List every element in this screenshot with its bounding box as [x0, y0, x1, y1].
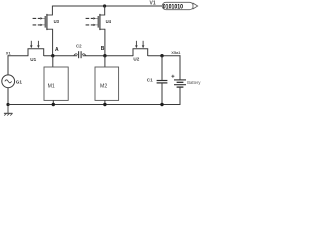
svg-text:C1: C1 — [147, 77, 153, 82]
node: M2 bottom junction — [103, 103, 106, 106]
wire: M2 bottom pin — [104, 100, 106, 104]
svg-text:V1: V1 — [150, 1, 156, 7]
svg-text:B: B — [101, 46, 105, 52]
node: ground corner dot — [6, 103, 9, 106]
wire: M1 top pin — [52, 56, 54, 67]
transistor U4 (photo dual-gate FET, right) — [86, 14, 105, 30]
svg-text:G1: G1 — [16, 79, 23, 84]
wire: mid rail segment with node A — [44, 55, 77, 57]
wire: right rail upper (corner to battery) — [179, 55, 181, 79]
svg-text:U1: U1 — [30, 57, 36, 62]
wire: M2 top pin — [104, 56, 106, 67]
svg-text:C2: C2 — [76, 44, 82, 49]
node B — [103, 54, 106, 57]
wire: C1 lower lead — [161, 83, 163, 104]
wire: U3 drain riser — [51, 6, 53, 16]
svg-text:U3: U3 — [54, 19, 60, 24]
node: C1 tap on mid rail — [160, 54, 163, 57]
photo sensor U1 (bump, left) — [28, 41, 44, 56]
wire: U3 source drop to node A — [52, 29, 54, 56]
node A — [51, 54, 54, 57]
wire: M1 bottom pin — [52, 100, 54, 104]
wire: U4 source drop to node B — [104, 29, 106, 56]
wire: bottom rail — [8, 104, 181, 106]
wire: left rail lower (G1 to ground corner) — [7, 88, 9, 105]
wire: mid rail right segment — [148, 55, 181, 57]
photo sensor U2 (bump, right) — [133, 41, 148, 56]
ground — [4, 105, 13, 116]
connector pill (stimulus) — [162, 2, 198, 9]
svg-text:Battery: Battery — [187, 80, 201, 85]
node: top rail junction dot — [103, 4, 106, 7]
wire: right rail lower (battery to bottom rail) — [179, 87, 180, 104]
svg-text:0101010: 0101010 — [163, 4, 183, 11]
svg-text:M2: M2 — [100, 83, 107, 89]
battery BAT1 — [174, 80, 186, 87]
capacitor C2 — [74, 51, 86, 58]
node: C1 bottom junction — [160, 103, 163, 106]
wire: mid rail segment with node B — [83, 55, 134, 57]
svg-text:U2: U2 — [133, 57, 139, 62]
svg-text:X5a1: X5a1 — [171, 50, 181, 55]
svg-text:M1: M1 — [48, 83, 55, 89]
svg-text:U4: U4 — [106, 19, 112, 24]
motor M1 — [44, 67, 68, 100]
motor M2 — [95, 67, 119, 100]
wire: mid rail left segment — [8, 55, 28, 57]
wire: U4 drain riser — [104, 6, 106, 16]
capacitor C1 — [157, 81, 168, 83]
transistor U3 (photo dual-gate FET, left) — [33, 14, 53, 30]
wire: left rail upper (to G1) — [7, 55, 9, 75]
wire: top rail — [52, 5, 162, 7]
battery plus sign — [171, 75, 174, 78]
svg-text:X1: X1 — [6, 51, 12, 56]
node: M1 bottom junction — [52, 103, 55, 106]
AC source G1 — [2, 75, 15, 88]
wire: C1 upper lead — [161, 56, 163, 80]
G1 sine mark — [5, 80, 12, 83]
svg-text:A: A — [55, 47, 59, 53]
